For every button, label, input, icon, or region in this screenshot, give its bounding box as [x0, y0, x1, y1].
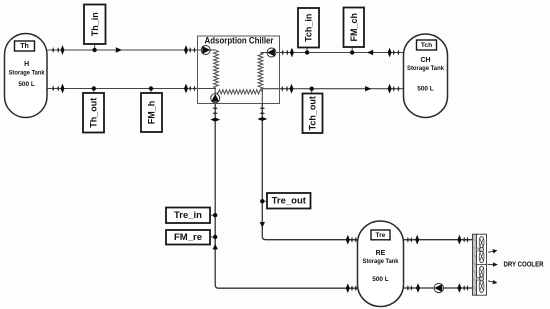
svg-text:Th_out: Th_out — [89, 98, 99, 128]
svg-text:Tre: Tre — [376, 232, 386, 239]
air flow arrow middle — [488, 264, 494, 266]
wire evaporator to pump stub — [214, 89, 216, 95]
dry cooler fan housing — [477, 234, 487, 295]
svg-text:Adsorption Chiller: Adsorption Chiller — [205, 35, 275, 45]
label Th_out — [83, 93, 104, 133]
node Tch_out junction — [311, 89, 313, 94]
H storage tank — [5, 34, 48, 118]
flow arrow Tre_out (down) — [260, 222, 265, 227]
flanges + valve, RE tank bottom-right — [407, 285, 409, 291]
flanges + valve, RE tank top-right — [407, 237, 409, 243]
pump P4 dry cooler circuit — [434, 283, 443, 292]
valve + flanges, chiller outlet left bottom — [184, 84, 188, 94]
svg-text:FM_ch: FM_ch — [349, 13, 359, 42]
svg-text:500 L: 500 L — [18, 81, 35, 88]
svg-text:Th: Th — [20, 43, 29, 50]
air flow arrow bottom — [488, 279, 498, 285]
flow arrow Tre_in (up) — [213, 244, 218, 249]
wire Tch return (chiller to CH tank, y=88.7) — [261, 88, 405, 90]
svg-text:Storage Tank: Storage Tank — [9, 69, 46, 76]
svg-text:Tch_out: Tch_out — [308, 96, 318, 130]
node Tch_in junction — [306, 48, 308, 53]
label Tre_in — [166, 208, 210, 224]
svg-text:500 L: 500 L — [417, 85, 434, 92]
flanges + valve, H tank outlet top — [52, 47, 54, 53]
label FM_re — [166, 230, 210, 245]
flanges + valve, chiller outlet right bottom — [281, 86, 283, 92]
flow arrow Tch_out (to tank) — [365, 86, 371, 91]
wire Th supply (H tank to chiller, y=50) — [46, 49, 216, 51]
label Tch_in — [298, 8, 319, 48]
node Th_out junction — [93, 89, 95, 94]
flanges + valve, chiller outlet right top — [282, 50, 284, 56]
dry cooler fan 1 — [479, 236, 484, 248]
label Tre_out — [267, 193, 311, 209]
adsorption chiller box — [198, 36, 280, 104]
node Tre_in junction — [210, 214, 215, 216]
dry cooler fan 2 — [479, 266, 484, 278]
flanges + valve, H tank return bottom — [52, 86, 54, 92]
wire RE tank top-right to dry cooler — [403, 239, 473, 241]
pump P2 cooling circuit — [267, 48, 276, 57]
svg-text:Tre_out: Tre_out — [272, 195, 307, 206]
wire Tre_in riser (RE tank bottom to chiller bottom-left) — [215, 104, 358, 288]
evaporator coil bottom — [217, 90, 262, 94]
node FM_ch junction — [351, 47, 353, 53]
wire Tch supply (CH tank to chiller, y=52.5) — [261, 52, 405, 54]
valve + flanges, chiller inlet left top — [184, 45, 188, 55]
svg-text:Storage Tank: Storage Tank — [363, 258, 400, 265]
valve + flanges, dry cooler outlet bottom — [457, 283, 461, 293]
valve + flanges, CH tank inlet top — [388, 48, 392, 58]
node Tre_out junction — [262, 200, 267, 202]
wire Th return (chiller to H tank, y=88.5) — [46, 88, 216, 90]
svg-text:RE: RE — [376, 250, 386, 257]
wire RE tank bottom-right to dry cooler — [403, 287, 473, 289]
label Tch_out — [303, 94, 323, 134]
air flow arrow top — [488, 248, 498, 254]
valve + flanges, CH tank return bottom — [388, 84, 392, 94]
label Th_in — [84, 5, 106, 45]
valve + flanges, RE tank inlet top-left — [346, 235, 350, 245]
svg-text:H: H — [24, 61, 29, 68]
svg-text:Th_in: Th_in — [90, 12, 100, 36]
flow arrow Tch (to chiller) — [367, 50, 373, 55]
Tre sensor box on RE tank — [371, 230, 390, 240]
flow arrow Th_in — [116, 47, 122, 52]
wire Tre_out riser (chiller bottom-right to RE tank top) — [262, 104, 358, 240]
svg-text:FM_re: FM_re — [174, 232, 202, 243]
flanges + valve, chiller chilled-water inlet riser — [212, 107, 218, 109]
valve + flanges, RE tank outlet bottom-left — [346, 283, 350, 293]
dry cooler coil bank (hatched bar) — [473, 234, 477, 295]
label FM_h — [141, 93, 162, 132]
svg-text:Storage Tank: Storage Tank — [407, 65, 445, 72]
RE storage tank — [358, 221, 404, 307]
pump P1 hot circuit — [201, 46, 210, 55]
label FM_ch — [344, 8, 365, 48]
node Th_in junction — [94, 44, 96, 50]
heat exchanger coil right (adsorber) — [258, 53, 263, 89]
node FM_h junction — [150, 89, 152, 94]
svg-text:FM_h: FM_h — [147, 101, 157, 125]
node FM_re junction — [210, 236, 215, 238]
Tch sensor box on CH tank — [417, 40, 437, 50]
svg-text:Tre_in: Tre_in — [174, 210, 202, 221]
svg-text:CH: CH — [420, 57, 430, 64]
valve + flanges, dry cooler inlet top — [457, 235, 461, 245]
svg-text:Tch: Tch — [421, 42, 432, 49]
svg-text:DRY COOLER: DRY COOLER — [504, 262, 544, 269]
CH storage tank — [404, 34, 448, 118]
Th sensor box on H tank — [15, 41, 35, 51]
svg-text:Tch_in: Tch_in — [304, 14, 314, 42]
heat exchanger coil left (adsorber) — [214, 51, 219, 89]
pump P3 chilled circuit — [211, 94, 220, 103]
flanges + valve, chiller chilled-water outlet riser — [259, 107, 265, 109]
svg-text:500 L: 500 L — [372, 276, 389, 283]
